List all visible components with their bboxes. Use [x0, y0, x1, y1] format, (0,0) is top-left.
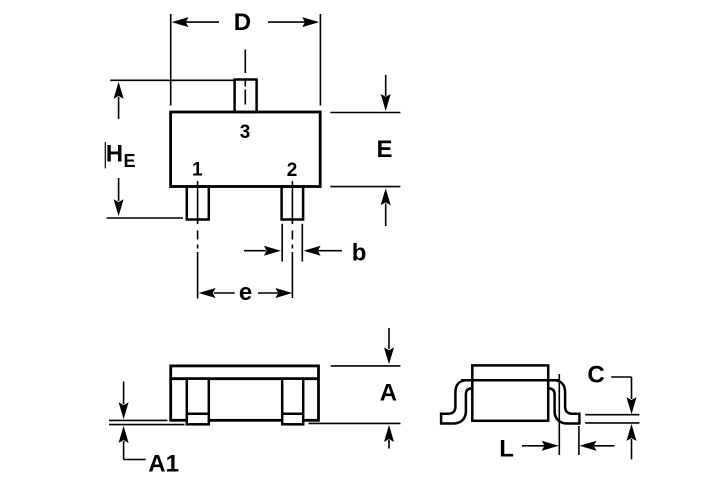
svg-text:A: A	[380, 380, 397, 407]
svg-text:E: E	[124, 151, 136, 171]
svg-text:C: C	[587, 362, 604, 389]
svg-text:H: H	[106, 141, 123, 168]
svg-text:e: e	[239, 279, 252, 306]
svg-text:1: 1	[192, 160, 203, 181]
svg-text:A1: A1	[148, 450, 179, 477]
svg-text:3: 3	[240, 122, 251, 143]
svg-text:E: E	[376, 136, 392, 163]
svg-text:D: D	[234, 9, 251, 36]
svg-text:b: b	[352, 240, 367, 267]
svg-text:2: 2	[287, 160, 298, 181]
svg-text:L: L	[499, 436, 514, 463]
